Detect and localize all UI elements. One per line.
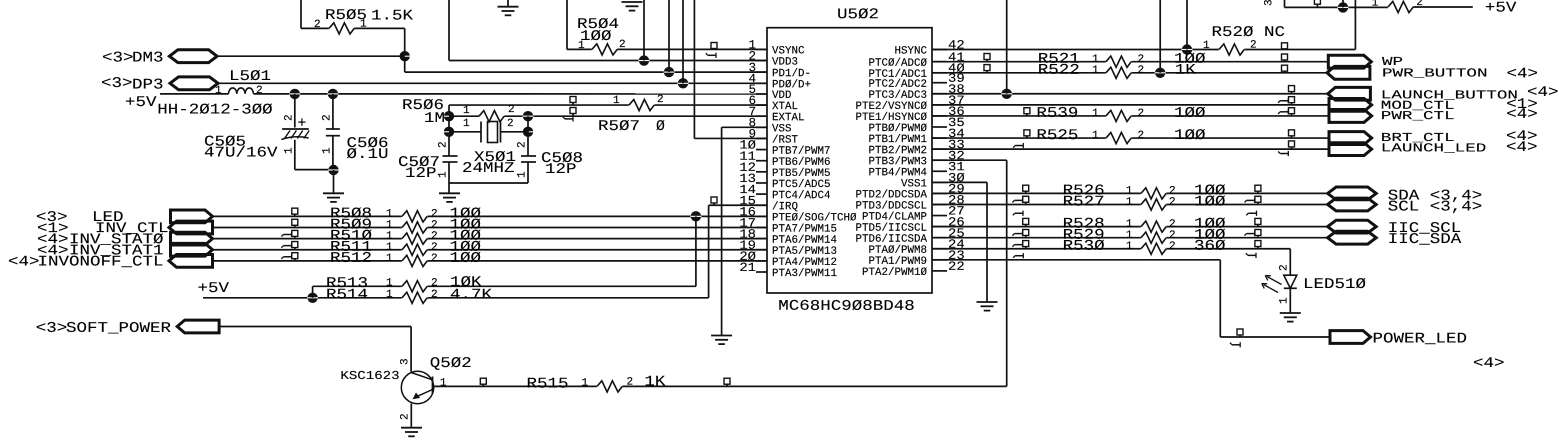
wire pin33 to LAUNCH_LED: [932, 148, 1329, 150]
svg-text:PTAØ/PWM8: PTAØ/PWM8: [868, 245, 927, 257]
U502 pin 5 VDD: [756, 93, 767, 95]
svg-text:2: 2: [508, 104, 515, 116]
svg-text:1: 1: [1372, 0, 1379, 10]
resistor R529 100: [1141, 235, 1167, 239]
svg-text:R525: R525: [1036, 128, 1078, 144]
junction XTAL/R506: [444, 111, 454, 121]
svg-text:1.5K: 1.5K: [371, 9, 413, 25]
svg-text:Ø.1U: Ø.1U: [346, 147, 388, 163]
svg-text:PD1/D-: PD1/D-: [772, 68, 811, 80]
wire Q502 emitter to ground: [410, 404, 412, 428]
wire SOFT_POWER: [219, 326, 411, 328]
svg-text:2: 2: [1279, 264, 1291, 271]
resistor R525 100: [1106, 136, 1132, 140]
wire EXTAL pin7: [528, 115, 767, 117]
junction PTE0 net: [691, 211, 701, 221]
svg-text:1K: 1K: [644, 375, 665, 391]
marker BRT_CTL: [1289, 130, 1295, 136]
svg-text:R522: R522: [1038, 63, 1080, 79]
svg-text:2: 2: [517, 141, 529, 148]
marker INV_CTL: [292, 219, 298, 225]
svg-text:PTBØ/PWMØ: PTBØ/PWMØ: [868, 123, 927, 135]
svg-text:2: 2: [431, 278, 438, 290]
svg-text:SOFT_POWER: SOFT_POWER: [66, 321, 171, 337]
wire DP3 to pin4: [218, 82, 767, 84]
wire INV_STAT1 to pin 19: [213, 249, 768, 251]
marker R527: [1023, 196, 1029, 202]
capacitor C505 polarized: [294, 94, 296, 128]
wire XTAL down: [448, 105, 450, 156]
U502 pin 34 PTB1/PWM1: [932, 137, 947, 139]
U502 pin 22 PTA2/PWM10: [932, 270, 947, 272]
svg-text:R514: R514: [326, 288, 368, 304]
resistor R527 100: [1141, 202, 1167, 206]
svg-text:PTA1/PWM9: PTA1/PWM9: [868, 256, 927, 268]
marker squares R507: [570, 97, 576, 103]
resistor R528 100: [1141, 224, 1167, 228]
svg-text:1: 1: [581, 378, 588, 390]
junction C505: [290, 89, 300, 99]
svg-text:2: 2: [619, 39, 626, 51]
U502 pin 10 PTB7/PWM7: [756, 149, 767, 151]
svg-text:1: 1: [578, 40, 585, 52]
svg-text:1ØØ: 1ØØ: [580, 29, 612, 45]
junction top wire: [1338, 2, 1348, 12]
wire DM3: [217, 55, 405, 57]
ground top 1: [507, 0, 509, 7]
svg-text:<4>: <4>: [1473, 356, 1505, 372]
U502 pin 3 PD1/D-: [756, 71, 767, 73]
resistor R522 1K: [1106, 71, 1132, 75]
port LAUNCH_BUTTON: [1328, 87, 1371, 100]
U502 pin 13 PTC5/ADC5: [756, 182, 767, 184]
wire top to R504: [566, 0, 568, 49]
svg-text:R515: R515: [526, 377, 568, 393]
port IIC_SCL: [1328, 220, 1377, 233]
marker pin15: [711, 197, 717, 203]
svg-text:Ø: Ø: [656, 119, 665, 135]
U502 pin 15 /IRQ: [756, 204, 767, 206]
U502 pin 1 VSYNC: [756, 48, 767, 50]
wire +5V pullup top: [1284, 0, 1286, 7]
marker R528: [1023, 218, 1029, 224]
svg-text:R512: R512: [330, 251, 372, 267]
wire crystal caps bottom: [449, 182, 528, 184]
resistor R513 10K: [402, 284, 428, 288]
svg-text:<3>: <3>: [102, 51, 134, 67]
marker LED: [292, 208, 298, 214]
resistor R515 1K: [597, 384, 623, 388]
svg-text:1: 1: [463, 105, 470, 117]
svg-text:41: 41: [948, 51, 965, 65]
port INV_STAT1: [171, 243, 213, 256]
IC U502 MC68HC908BD48 body: [767, 28, 932, 293]
wire top vertical to pin4: [682, 0, 684, 83]
U502 pin 40 PTC1/ADC1: [932, 72, 947, 74]
svg-text:2: 2: [626, 377, 633, 389]
svg-text:1: 1: [1203, 40, 1210, 52]
svg-text:12P: 12P: [405, 166, 437, 182]
svg-text:2: 2: [284, 114, 296, 121]
junction DM3/R505: [400, 51, 410, 61]
svg-text:NC: NC: [1264, 25, 1285, 41]
U502 pin 20 PTA4/PWM12: [756, 260, 767, 262]
U502 pin 19 PTA5/PWM13: [756, 249, 767, 251]
svg-text:PTCØ/ADCØ: PTCØ/ADCØ: [868, 58, 927, 70]
marker top wire: [1314, 0, 1320, 4]
svg-text:1M: 1M: [424, 111, 445, 127]
wire pin38 to LAUNCH_BUTTON: [932, 93, 1328, 95]
wire pin26 to IIC_SCL: [932, 226, 1328, 228]
marker R530: [1023, 241, 1029, 247]
svg-text:42: 42: [948, 39, 965, 53]
wire pin16 down to R513: [695, 216, 697, 286]
U502 pin 28 PTD3/DDCSCL: [932, 203, 947, 205]
U502 pin 23 PTA1/PWM9: [932, 259, 947, 261]
svg-text:2: 2: [438, 141, 450, 148]
wire pin24 to LED510: [932, 248, 1290, 250]
U502 pin 25 PTD6/IICSDA: [932, 237, 947, 239]
port LED: [171, 210, 213, 223]
wire top vertical to pin2 VDD3: [448, 0, 450, 61]
svg-text:LAUNCH_LED: LAUNCH_LED: [1381, 141, 1487, 155]
U502 pin 31 PTB4/PWM4: [932, 170, 947, 172]
wire HSYNC vertical up: [1186, 0, 1188, 50]
U502 pin 37 PTE2/VSYNC0: [932, 104, 947, 106]
marker pin41: [984, 54, 990, 60]
svg-text:1ØØ: 1ØØ: [1194, 194, 1226, 210]
port MOD_CTL: [1329, 98, 1372, 111]
port SOFT_POWER: [177, 320, 219, 333]
junction pin38: [1002, 89, 1012, 99]
U502 pin 36 PTE1/HSYNC0: [932, 115, 947, 117]
port PWR_BUTTON: [1327, 66, 1370, 79]
wire LED to pin 16: [213, 215, 768, 217]
resistor R508 100: [402, 214, 428, 218]
svg-text:1: 1: [386, 278, 393, 290]
svg-text:3: 3: [1264, 0, 1276, 6]
svg-text:<3>: <3>: [36, 321, 68, 337]
svg-text:1: 1: [284, 147, 296, 154]
marker INVONOFF_CTL: [292, 253, 298, 259]
svg-text:INVONOFF_CTL: INVONOFF_CTL: [37, 254, 163, 270]
U502 pin 42 HSYNC: [932, 49, 947, 51]
U502 pin 6 XTAL: [756, 104, 767, 106]
junction XTAL/crystal: [444, 127, 454, 137]
U502 pin 35 PTB0/PWM0: [932, 126, 947, 128]
svg-text:PTE2/VSYNCØ: PTE2/VSYNCØ: [855, 101, 927, 113]
U502 pin 12 PTB5/PWM5: [756, 171, 767, 173]
resistor R509 100: [402, 225, 428, 229]
U502 pin 32 PTB3/PWM3: [932, 159, 947, 161]
svg-text:12P: 12P: [545, 162, 577, 178]
resistor R539 100: [1106, 114, 1132, 118]
svg-text:VSS1: VSS1: [901, 178, 927, 190]
resistor R504: [567, 48, 592, 50]
wire XTAL pin6: [449, 104, 767, 106]
wire pin23 to POWER_LED: [932, 259, 1220, 261]
wire pin25 to IIC_SDA: [932, 237, 1328, 239]
marker INV_STAT0: [292, 230, 298, 236]
marker pin40: [984, 65, 990, 71]
ground VSS1: [977, 301, 998, 303]
svg-text:POWER_LED: POWER_LED: [1372, 332, 1467, 348]
ground Q502: [401, 427, 422, 429]
U502 pin 33 PTB2/PWM2: [932, 148, 947, 150]
ground LED510: [1280, 312, 1301, 314]
wire VSS1 pin30 to ground: [932, 181, 987, 183]
marker INV_STAT1: [292, 242, 298, 248]
svg-text:<3>: <3>: [101, 76, 133, 92]
svg-text:PWR_CTL: PWR_CTL: [1381, 109, 1455, 123]
junction C506 ground: [328, 165, 338, 175]
svg-text:1: 1: [322, 147, 334, 154]
marker WP row: [1282, 54, 1288, 60]
svg-text:1: 1: [1126, 196, 1133, 208]
svg-text:1: 1: [1092, 130, 1099, 142]
wire top vertical to pin3: [664, 67, 674, 77]
svg-text:1K: 1K: [1175, 63, 1196, 79]
marker PWR_CTL: [1289, 108, 1295, 114]
marker R525: [1024, 130, 1030, 136]
ground C505/C506: [323, 192, 344, 194]
svg-text:1: 1: [386, 289, 393, 301]
marker IIC_SCL: [1255, 218, 1261, 224]
U502 pin 4 PD0/D+: [756, 82, 767, 84]
resistor R512 100: [402, 259, 428, 263]
svg-text:2: 2: [400, 413, 412, 420]
port INVONOFF_CTL: [169, 254, 213, 267]
marker R515 right: [724, 378, 730, 384]
svg-text:U5Ø2: U5Ø2: [837, 7, 879, 23]
port INV_CTL: [169, 221, 213, 234]
svg-text:<4>: <4>: [1506, 67, 1538, 83]
marker R539: [1024, 108, 1030, 114]
U502 pin 8 VSS: [756, 126, 767, 128]
U502 pin 30 VSS1: [932, 181, 947, 183]
svg-text:PTC3/ADC3: PTC3/ADC3: [868, 90, 927, 102]
svg-text:1: 1: [438, 171, 450, 178]
U502 pin 16 PTE0/SOG/TCH0: [756, 215, 767, 217]
wire pin28 to SCL: [932, 203, 1328, 205]
marker R520 right: [1282, 43, 1288, 49]
svg-text:2: 2: [322, 114, 334, 121]
LED LED510: [1284, 275, 1297, 288]
svg-text:3: 3: [400, 358, 412, 365]
U502 pin 9 /RST: [756, 137, 767, 139]
svg-text:1ØØ: 1ØØ: [449, 251, 481, 267]
svg-text:2: 2: [507, 118, 514, 130]
svg-text:R53Ø: R53Ø: [1063, 239, 1105, 255]
svg-text:1: 1: [1279, 297, 1291, 304]
svg-text:2: 2: [256, 85, 263, 97]
wire HSYNC pin42 / R520 line: [932, 49, 1355, 51]
U502 pin 14 PTC4/ADC4: [756, 193, 767, 195]
port PWR_CTL: [1329, 110, 1372, 123]
marker square pin1: [711, 43, 717, 49]
wire pin36 to PWR_CTL: [932, 115, 1329, 117]
svg-text:1ØØ: 1ØØ: [1174, 106, 1206, 122]
port SDA: [1328, 187, 1377, 200]
svg-text:1: 1: [613, 95, 620, 107]
svg-text:PTB2/PWM2: PTB2/PWM2: [868, 145, 927, 157]
svg-text:HSYNC: HSYNC: [894, 45, 927, 57]
svg-text:1: 1: [360, 19, 367, 31]
marker LED510 row: [1255, 241, 1261, 247]
U502 pin 18 PTA6/PWM14: [756, 238, 767, 240]
resistor R507 0 ohm: [629, 103, 655, 107]
svg-text:PTB3/PWM3: PTB3/PWM3: [868, 156, 927, 168]
svg-text:HH-2Ø12-3ØØ: HH-2Ø12-3ØØ: [157, 103, 273, 119]
U502 pin 39 PTC2/ADC2: [932, 82, 947, 84]
svg-text:R527: R527: [1063, 194, 1105, 210]
junction HSYNC: [1182, 44, 1192, 54]
capacitor C506: [332, 94, 334, 129]
marker SDA: [1255, 185, 1261, 191]
resistor R514 4.7K: [402, 296, 428, 300]
marker SCL: [1255, 196, 1261, 202]
U502 pin 17 PTA7/PWM15: [756, 226, 767, 228]
svg-text:+5V: +5V: [1485, 1, 1517, 17]
wire INV_CTL to pin 17: [213, 226, 768, 228]
port WP: [1328, 55, 1371, 68]
svg-text:2: 2: [1137, 65, 1144, 77]
port SCL: [1328, 198, 1377, 211]
svg-text:DP3: DP3: [132, 78, 164, 94]
junction EXTAL/crystal: [523, 127, 533, 137]
svg-text:2: 2: [1169, 196, 1176, 208]
svg-text:2: 2: [1137, 108, 1144, 120]
port DP3: [170, 77, 218, 90]
wire pin29 to SDA: [932, 192, 1328, 194]
svg-text:PWR_BUTTON: PWR_BUTTON: [1382, 67, 1488, 81]
resistor R506 1M: [479, 114, 505, 118]
U502 pin 26 PTD5/IICSCL: [932, 226, 947, 228]
junction pin40 vertical: [1155, 68, 1165, 78]
LED510 arrows: [1267, 277, 1282, 285]
svg-text:R539: R539: [1036, 106, 1078, 122]
svg-text:1: 1: [463, 118, 470, 130]
wire top to R505: [300, 0, 302, 28]
svg-text:DM3: DM3: [132, 51, 164, 67]
wire pin40 to PWR_BUTTON: [932, 72, 1327, 74]
wire R530 down to LED510: [1289, 249, 1291, 275]
U502 pin 27 PTD4/CLAMP: [932, 215, 947, 217]
svg-text:+5V: +5V: [197, 281, 229, 297]
svg-text:<4>: <4>: [8, 254, 40, 270]
svg-text:1: 1: [517, 171, 529, 178]
resistor R511 100: [402, 248, 428, 252]
resistor R510 100: [402, 236, 428, 240]
svg-text:PTC1/ADC1: PTC1/ADC1: [868, 69, 927, 81]
svg-text:36Ø: 36Ø: [1194, 239, 1226, 255]
svg-text:2: 2: [314, 19, 321, 31]
svg-text:LED51Ø: LED51Ø: [1303, 277, 1366, 293]
resistor R505: [301, 27, 329, 29]
port DM3: [169, 50, 217, 63]
svg-text:1: 1: [386, 253, 393, 265]
wire pin32 to R515 net: [932, 159, 1007, 161]
wire to ground: [333, 170, 335, 193]
svg-text:MC68HC9Ø8BD48: MC68HC9Ø8BD48: [778, 299, 915, 315]
svg-text:PTB1/PWM1: PTB1/PWM1: [868, 134, 927, 146]
svg-text:4.7K: 4.7K: [450, 288, 492, 304]
svg-text:<4>: <4>: [1506, 140, 1538, 156]
svg-text:2: 2: [1137, 130, 1144, 142]
U502 pin 38 PTC3/ADC3: [932, 93, 947, 95]
crystal X501 24MHZ: [449, 131, 481, 133]
svg-text:1: 1: [440, 378, 447, 390]
port LAUNCH_LED: [1329, 143, 1372, 156]
wire L501 to pin5 VDD: [254, 93, 768, 95]
svg-text:PTD3/DDCSCL: PTD3/DDCSCL: [855, 200, 927, 212]
wire pin41 to WP: [932, 61, 1328, 63]
wire /RST pin9 up: [694, 137, 767, 139]
wire INVONOFF_CTL to pin 20: [213, 260, 768, 262]
wire Q502 base to R515: [434, 385, 1007, 387]
wire pin37 to MOD_CTL: [932, 104, 1329, 106]
wire R520 right vertical: [1354, 0, 1356, 50]
svg-text:+5V: +5V: [125, 95, 157, 111]
svg-text:PTA3/PWM11: PTA3/PWM11: [772, 268, 837, 280]
wire INV_STAT0 to pin 18: [213, 238, 768, 240]
svg-text:R52Ø: R52Ø: [1211, 25, 1253, 41]
svg-text:2: 2: [431, 289, 438, 301]
svg-text:2: 2: [1169, 241, 1176, 253]
marker LAUNCH_BUTTON: [1289, 86, 1295, 92]
port POWER_LED: [1330, 331, 1371, 344]
svg-text:KSC1623: KSC1623: [340, 369, 399, 383]
U502 pin 41 PTC0/ADC0: [932, 61, 947, 63]
junction +5V R513/R514: [307, 293, 317, 303]
wire R505 to pin3: [404, 28, 406, 72]
resistor R520 NC: [1219, 47, 1245, 51]
svg-text:PTD2/DDCSDA: PTD2/DDCSDA: [855, 189, 927, 201]
svg-text:1ØØ: 1ØØ: [1174, 128, 1206, 144]
resistor R530 360: [1141, 247, 1167, 251]
marker R526: [1023, 185, 1029, 191]
port BRT_CTL: [1329, 132, 1372, 145]
ground VSS: [711, 335, 732, 337]
wire pin15 /IRQ down to R514: [709, 204, 767, 206]
marker R515 left: [480, 378, 486, 384]
ground X501: [448, 183, 450, 193]
svg-text:24MHZ: 24MHZ: [462, 161, 515, 177]
wire C505 bottom: [295, 169, 334, 171]
svg-text:PTB4/PWM4: PTB4/PWM4: [868, 167, 927, 179]
U502 pin 7 EXTAL: [756, 115, 767, 117]
svg-text:L5Ø1: L5Ø1: [229, 69, 271, 85]
svg-text:VDD3: VDD3: [772, 57, 798, 69]
svg-text:PTA2/PWM1Ø: PTA2/PWM1Ø: [862, 267, 927, 279]
ground top 2: [622, 1, 643, 3]
svg-text:R5Ø7: R5Ø7: [598, 119, 640, 135]
resistor R526 100: [1141, 191, 1167, 195]
marker R529: [1023, 229, 1029, 235]
svg-text:2: 2: [431, 253, 438, 265]
U502 pin 24 PTA0/PWM8: [932, 248, 947, 250]
svg-text:PTD6/IICSDA: PTD6/IICSDA: [855, 234, 927, 246]
marker MOD_CTL: [1289, 97, 1295, 103]
junction EXTAL/R506: [523, 111, 533, 121]
svg-text:2: 2: [1250, 40, 1257, 52]
svg-text:<4>: <4>: [1506, 107, 1538, 123]
marker pin27: [1015, 212, 1023, 214]
svg-text:IIC_SDA: IIC_SDA: [1388, 232, 1462, 248]
resistor R521 100: [1106, 60, 1132, 64]
U502 pin 11 PTB6/PWM6: [756, 160, 767, 162]
svg-text:SCL <3,4>: SCL <3,4>: [1388, 200, 1483, 216]
